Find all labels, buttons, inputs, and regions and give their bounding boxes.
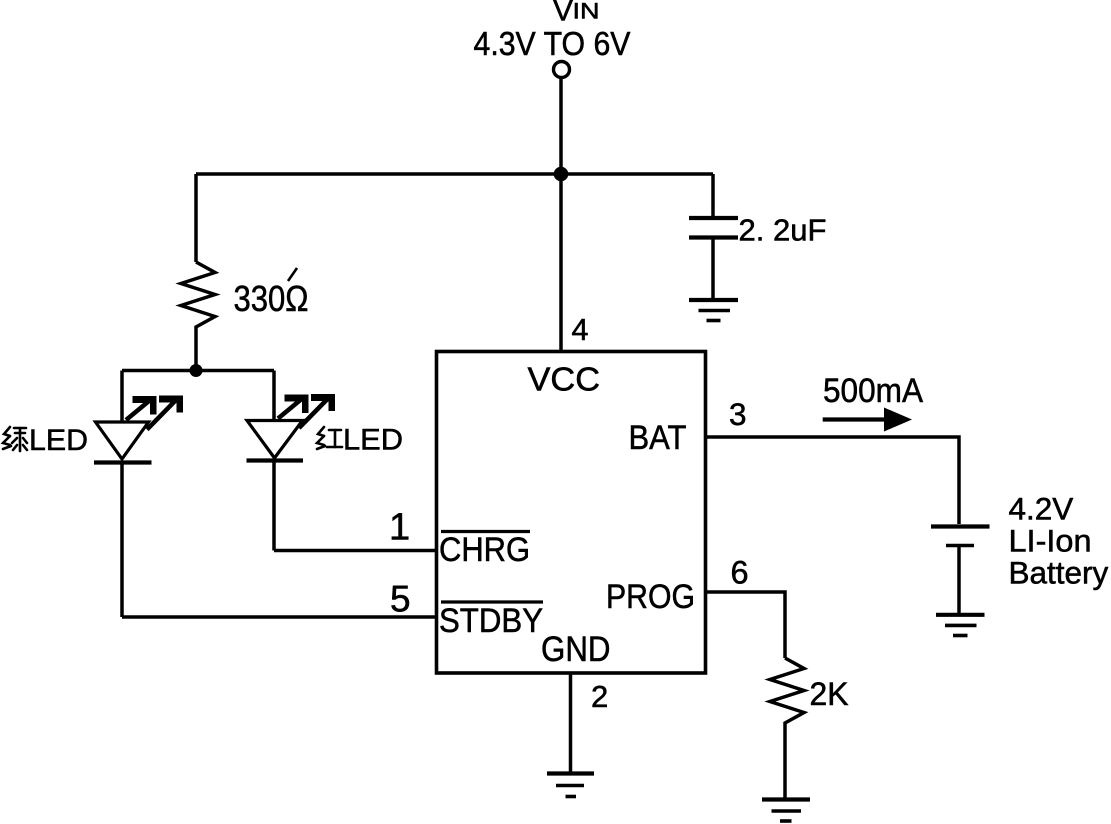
svg-text:LED: LED: [343, 424, 403, 457]
svg-text:LED: LED: [29, 424, 88, 457]
svg-text:BAT: BAT: [629, 419, 687, 457]
svg-text:IN: IN: [573, 0, 600, 24]
svg-text:330Ω: 330Ω: [234, 278, 309, 319]
svg-text:4.3V TO 6V: 4.3V TO 6V: [474, 25, 631, 62]
svg-text:LI-Ion: LI-Ion: [1009, 523, 1092, 559]
svg-text:4: 4: [572, 313, 589, 347]
svg-text:VCC: VCC: [528, 361, 601, 398]
svg-text:2: 2: [591, 679, 608, 714]
svg-text:STDBY: STDBY: [439, 602, 543, 640]
svg-text:5: 5: [390, 579, 411, 620]
svg-text:6: 6: [731, 555, 749, 591]
svg-text:Battery: Battery: [1009, 555, 1109, 591]
svg-text:CHRG: CHRG: [439, 531, 530, 569]
svg-text:GND: GND: [541, 630, 611, 669]
svg-text:3: 3: [729, 396, 747, 432]
svg-text:4.2V: 4.2V: [1009, 491, 1074, 527]
svg-text:V: V: [553, 0, 573, 28]
svg-text:2. 2uF: 2. 2uF: [739, 214, 827, 248]
svg-text:2K: 2K: [810, 676, 849, 712]
svg-text:PROG: PROG: [606, 578, 695, 616]
svg-text:1: 1: [389, 507, 410, 549]
svg-text:500mA: 500mA: [823, 372, 923, 410]
